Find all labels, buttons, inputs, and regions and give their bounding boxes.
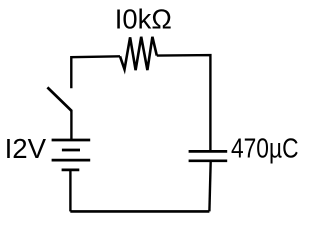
wire: top-left vertical from switch upper contact up to top-left corner (71, 56, 120, 88)
battery B1 plate long (top) (52, 139, 91, 142)
capacitor C1 bottom plate (189, 159, 228, 162)
resistor R (zigzag) (120, 37, 157, 70)
battery B1 plate short (62, 149, 80, 152)
battery B1 plate short (bottom) (62, 168, 80, 171)
switch S1 blade (open) (47, 87, 71, 111)
battery B1 plate long (52, 159, 91, 162)
wire: bottom-left vertical up to battery (69, 170, 71, 212)
svg-text:I0kΩ: I0kΩ (115, 4, 172, 35)
capacitor C1 top plate (189, 150, 228, 153)
wire: bottom horizontal (70, 210, 209, 213)
wire: top right horizontal + right vertical down to capacitor (157, 55, 211, 151)
svg-text:470µC: 470µC (231, 133, 299, 164)
wire: right vertical below capacitor (209, 161, 210, 212)
wire: vertical from switch lower contact down to battery top plate (70, 110, 72, 140)
svg-text:I2V: I2V (5, 133, 47, 164)
